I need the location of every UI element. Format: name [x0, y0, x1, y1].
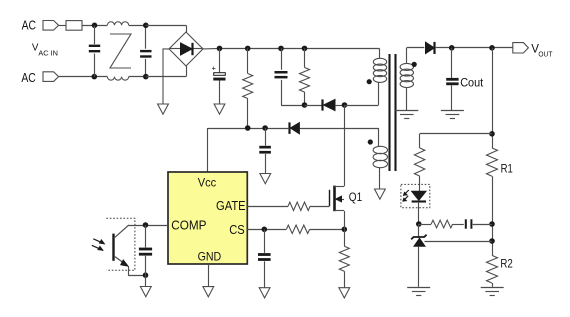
- svg-text:Cout: Cout: [460, 75, 483, 89]
- svg-text:AC: AC: [21, 70, 35, 85]
- svg-text:R1: R1: [501, 161, 513, 175]
- svg-text:AC: AC: [22, 17, 36, 32]
- svg-text:+: +: [212, 64, 216, 73]
- svg-text:GATE: GATE: [216, 199, 246, 213]
- svg-text:Q1: Q1: [349, 190, 362, 204]
- svg-text:CS: CS: [229, 223, 245, 237]
- svg-text:OUT: OUT: [538, 51, 553, 58]
- svg-text:COMP: COMP: [171, 218, 206, 232]
- svg-text:R2: R2: [500, 257, 512, 271]
- svg-text:AC IN: AC IN: [38, 50, 58, 57]
- svg-text:GND: GND: [198, 249, 222, 263]
- svg-text:Vcc: Vcc: [198, 176, 217, 190]
